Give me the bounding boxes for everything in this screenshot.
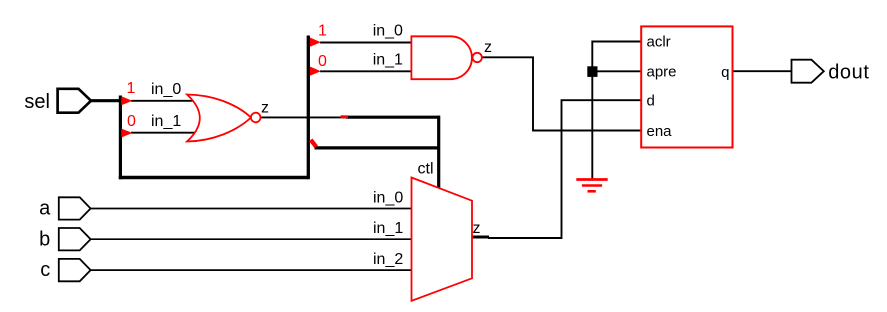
NOR input arrow in_0: [121, 96, 132, 105]
wire bold vertical to mux ctl: [437, 116, 440, 190]
svg-text:a: a: [39, 198, 51, 220]
svg-text:z: z: [261, 99, 269, 116]
svg-text:1: 1: [318, 22, 327, 39]
svg-text:c: c: [40, 259, 50, 281]
input pin b: [59, 228, 91, 250]
svg-text:in_1: in_1: [373, 220, 403, 237]
wire bold vertical at x=308.3 up to NAND inputs: [307, 36, 310, 180]
output pin dout: [792, 60, 824, 83]
NAND input arrow in_0: [310, 38, 321, 47]
NAND input arrow in_1: [310, 67, 321, 76]
wire sel pin to junction (bold): [90, 99, 122, 102]
wire q to dout: [733, 70, 792, 72]
svg-text:ena: ena: [647, 123, 673, 140]
svg-text:dout: dout: [828, 62, 869, 84]
wire NAND in_1: [320, 70, 412, 72]
NAND gate U2: [411, 36, 472, 79]
wire a to mux in_0: [91, 208, 411, 210]
wire NOR in_1: [131, 132, 196, 134]
svg-text:0: 0: [127, 113, 136, 130]
svg-text:d: d: [647, 93, 655, 110]
input pin sel: [58, 89, 91, 113]
wire c to mux in_2: [91, 269, 411, 271]
wire NOR z net bold horizontal: [346, 116, 440, 119]
ground: [576, 180, 607, 192]
red connection tick on z net: [341, 115, 348, 118]
svg-text:aclr: aclr: [647, 34, 671, 51]
wire b to mux in_1: [91, 238, 411, 240]
junction square apre/aclr: [587, 66, 597, 77]
NOR bubble: [251, 113, 261, 123]
svg-text:in_1: in_1: [373, 51, 403, 68]
MUX U3: [412, 178, 473, 301]
svg-text:0: 0: [318, 53, 327, 70]
wire mux z to register d: [488, 100, 641, 238]
wire NOR z output (thin): [261, 116, 347, 118]
register U4: [641, 26, 732, 147]
input pin c: [59, 259, 91, 281]
wire apre: [592, 70, 641, 72]
NOR gate U1: [187, 95, 251, 142]
NAND bubble: [473, 53, 482, 62]
svg-text:ctl: ctl: [418, 161, 434, 178]
svg-text:in_1: in_1: [151, 113, 181, 130]
svg-text:in_0: in_0: [151, 81, 181, 98]
wire bold feedback horizontal y=147.9: [315, 146, 441, 149]
wire bold horizontal y=177.5: [119, 176, 308, 179]
svg-text:z: z: [473, 220, 481, 237]
svg-text:q: q: [721, 64, 729, 81]
svg-text:b: b: [39, 228, 50, 250]
red diagonal arrow at feedback corner: [311, 140, 317, 147]
svg-text:in_0: in_0: [373, 23, 403, 40]
wire aclr to ground: [592, 42, 641, 179]
wire NAND in_0: [320, 42, 412, 44]
svg-text:sel: sel: [24, 91, 50, 113]
svg-text:1: 1: [127, 80, 136, 97]
input pin a: [59, 197, 91, 219]
svg-text:in_0: in_0: [373, 190, 403, 207]
svg-text:apre: apre: [647, 64, 677, 81]
wire bold vertical at x=120.4: [119, 96, 122, 180]
wire NOR in_0: [131, 100, 196, 102]
svg-text:in_2: in_2: [373, 251, 403, 268]
NOR input arrow in_1: [121, 129, 132, 138]
wire mux z stub (bold): [472, 236, 489, 239]
svg-text:z: z: [484, 39, 492, 56]
wire NAND z to ena: [482, 57, 641, 130]
